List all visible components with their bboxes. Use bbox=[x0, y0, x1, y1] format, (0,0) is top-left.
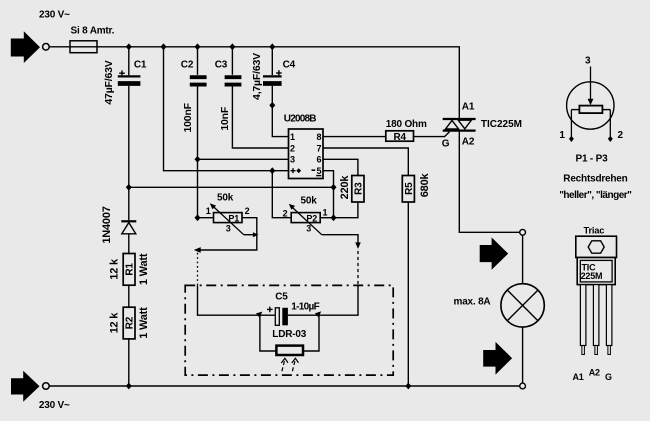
svg-text:3: 3 bbox=[306, 224, 311, 234]
capacitor C5 bbox=[267, 292, 320, 326]
wire IC pin5 down bbox=[323, 171, 334, 218]
wire R2 to rail bbox=[128, 339, 130, 386]
svg-text:180 Ohm: 180 Ohm bbox=[386, 119, 427, 130]
svg-text:A1: A1 bbox=[462, 102, 475, 113]
svg-text:12 k: 12 k bbox=[108, 312, 120, 334]
connector arrow P2 to sensor bbox=[355, 242, 361, 249]
node dot C1-187 bbox=[126, 184, 132, 191]
resistor R2 bbox=[108, 307, 150, 339]
svg-text:P1: P1 bbox=[228, 213, 239, 223]
svg-text:G: G bbox=[605, 372, 612, 382]
wire C3 to IC pin2 bbox=[232, 87, 288, 149]
node dot C2-pin3 bbox=[195, 156, 201, 163]
node dot P1 pin1 bbox=[195, 214, 201, 221]
svg-text:TIC225M: TIC225M bbox=[481, 119, 522, 130]
capacitor C4 bbox=[251, 47, 296, 100]
svg-text:1 Watt: 1 Watt bbox=[138, 253, 150, 285]
wire P1 wiper horizontal bbox=[244, 234, 257, 236]
wire to C5 left plate bbox=[260, 314, 275, 316]
resistor R3 bbox=[339, 175, 365, 202]
svg-text:1: 1 bbox=[323, 208, 328, 218]
node dot pin4 branch bbox=[269, 167, 275, 174]
svg-text:1 Watt: 1 Watt bbox=[138, 307, 150, 339]
svg-text:R2: R2 bbox=[125, 316, 136, 329]
dial symbol P1-P3 bbox=[559, 56, 623, 143]
capacitor C2 bbox=[181, 47, 207, 133]
svg-text:12 k: 12 k bbox=[108, 258, 120, 280]
wire C4 to IC pin1 bbox=[272, 86, 288, 137]
wire bottom rail bbox=[49, 385, 519, 387]
wire top rail bbox=[49, 47, 459, 119]
load arrow lower bbox=[483, 342, 512, 375]
node dot pin5-187 bbox=[331, 184, 337, 191]
triac TIC225M symbol bbox=[442, 102, 522, 150]
wire IC pin8 to R4 bbox=[323, 136, 386, 138]
wire R5 bottom to rail bbox=[407, 202, 409, 386]
potentiometer P2 bbox=[283, 195, 328, 234]
svg-text:LDR-03: LDR-03 bbox=[272, 329, 306, 340]
svg-text:1: 1 bbox=[559, 130, 565, 141]
node dot rail C2 bbox=[195, 43, 201, 50]
terminal circle top-left bbox=[43, 44, 50, 51]
capacitor C1 bbox=[103, 47, 147, 105]
node dot rail C4 bbox=[269, 43, 275, 50]
svg-text:7: 7 bbox=[316, 143, 321, 153]
node dot rail C3 bbox=[229, 43, 235, 50]
node dot C4 wire bbox=[269, 102, 275, 109]
resistor R1 bbox=[108, 253, 150, 285]
wire lamp bottom bbox=[522, 327, 524, 383]
svg-text:6: 6 bbox=[316, 155, 321, 165]
terminal circle lamp top bbox=[520, 229, 526, 235]
wire P2 pin1 bbox=[320, 217, 333, 219]
node dot rail Vcc bbox=[161, 43, 167, 50]
mains input arrow top bbox=[11, 31, 40, 63]
fuse Si8 bbox=[70, 41, 97, 53]
svg-text:50k: 50k bbox=[301, 195, 318, 206]
svg-text:100nF: 100nF bbox=[182, 102, 194, 132]
svg-text:C2: C2 bbox=[181, 59, 194, 70]
connector arrow into C5 right bbox=[315, 311, 321, 317]
wire triac A2 down to lamp bbox=[459, 130, 520, 232]
svg-text:A1: A1 bbox=[573, 372, 584, 382]
svg-text:R4: R4 bbox=[394, 132, 407, 143]
resistor R4 bbox=[386, 119, 427, 143]
wire IC pin7 to R5 top bbox=[323, 148, 408, 176]
wire P1 pin1 bbox=[198, 217, 214, 219]
wire IC pin6 to R3 top bbox=[323, 159, 358, 175]
diode 1N4007 bbox=[101, 206, 137, 243]
lamp max 8A bbox=[454, 284, 545, 327]
resistor R5 bbox=[402, 172, 431, 202]
terminal circle bottom-left bbox=[43, 383, 50, 390]
node dot rail C1 bbox=[126, 43, 132, 50]
svg-text:3: 3 bbox=[585, 56, 591, 67]
wire Vcc line to IC pin4 bbox=[164, 47, 289, 171]
svg-text:5: 5 bbox=[316, 166, 321, 176]
wire lamp top bbox=[522, 235, 524, 284]
svg-text:680k: 680k bbox=[419, 172, 431, 197]
op-amp U1 U2008B IC box bbox=[284, 114, 323, 179]
light arrow 2 bbox=[292, 358, 299, 371]
mains input arrow bottom bbox=[11, 371, 40, 402]
wire sensor left entry bbox=[198, 285, 260, 315]
svg-text:R1: R1 bbox=[125, 263, 136, 276]
svg-text:1-10µF: 1-10µF bbox=[291, 301, 319, 312]
node dot rail R5 bbox=[405, 383, 411, 390]
capacitor C3 bbox=[215, 47, 242, 131]
wire P1 pin2 wiper loop bbox=[200, 218, 256, 250]
wire R1 to R2 bbox=[128, 285, 130, 307]
svg-text:230 V~: 230 V~ bbox=[39, 10, 70, 21]
wire diode to R1 bbox=[128, 234, 130, 254]
wire P2 wiper loop bbox=[322, 235, 358, 246]
junction arrow P1 wiper bbox=[253, 232, 259, 237]
LDR-03 body bbox=[272, 329, 306, 355]
svg-text:A2: A2 bbox=[589, 367, 600, 377]
wire R4 to triac gate bbox=[414, 132, 450, 137]
svg-text:max. 8A: max. 8A bbox=[454, 297, 491, 308]
svg-text:8: 8 bbox=[316, 132, 321, 142]
svg-text:C5: C5 bbox=[275, 292, 288, 303]
svg-text:G: G bbox=[442, 138, 450, 149]
svg-text:A2: A2 bbox=[462, 137, 475, 148]
svg-text:U2008B: U2008B bbox=[284, 114, 316, 125]
svg-text:Rechtsdrehen: Rechtsdrehen bbox=[563, 174, 627, 185]
wire C5 right to P2 entry bbox=[288, 285, 358, 315]
svg-text:R5: R5 bbox=[404, 182, 415, 195]
svg-text:225M: 225M bbox=[581, 271, 603, 281]
node dot rail R2 bbox=[126, 383, 132, 390]
svg-text:2: 2 bbox=[245, 206, 250, 216]
terminal circle lamp bottom bbox=[520, 383, 526, 389]
svg-text:1: 1 bbox=[206, 206, 211, 216]
wire dashed P2 to box bbox=[357, 251, 359, 286]
light arrow 1 bbox=[281, 358, 288, 371]
svg-text:10nF: 10nF bbox=[219, 106, 231, 130]
svg-text:Triac: Triac bbox=[584, 226, 605, 236]
load arrow upper bbox=[480, 237, 509, 269]
svg-text:"heller", "länger": "heller", "länger" bbox=[559, 190, 632, 201]
svg-text:P2: P2 bbox=[306, 213, 317, 223]
svg-text:R3: R3 bbox=[354, 182, 365, 195]
wire C2 down bbox=[197, 87, 199, 218]
svg-text:2: 2 bbox=[618, 130, 624, 141]
svg-text:1: 1 bbox=[290, 132, 295, 142]
svg-text:Si 8 Amtr.: Si 8 Amtr. bbox=[71, 26, 115, 37]
wire pin4 branch to P2 pin2 bbox=[272, 171, 291, 218]
svg-text:2: 2 bbox=[290, 143, 295, 153]
sensor enclosure dash-dot box bbox=[185, 285, 393, 375]
wire C1 down to diode bbox=[128, 86, 130, 221]
connector arrow into C5 left bbox=[256, 312, 262, 318]
TO-220 package Triac bbox=[573, 226, 617, 382]
svg-text:230 V~: 230 V~ bbox=[39, 400, 70, 411]
svg-text:220k: 220k bbox=[339, 175, 351, 200]
wire LDR right leg bbox=[303, 315, 319, 351]
svg-text:3: 3 bbox=[290, 155, 295, 165]
wire C1 to pin5 net bbox=[129, 186, 334, 188]
wire LDR left leg bbox=[260, 315, 277, 351]
svg-text:C4: C4 bbox=[283, 59, 296, 70]
node dot pin5-P2 bbox=[331, 214, 337, 221]
wire dotted P1 to box bbox=[197, 253, 199, 286]
wire R3 bottom bbox=[334, 202, 358, 218]
svg-text:C1: C1 bbox=[134, 59, 147, 70]
svg-text:1N4007: 1N4007 bbox=[101, 206, 113, 243]
svg-text:50k: 50k bbox=[217, 192, 234, 203]
wire IC pin3 line bbox=[198, 158, 289, 160]
svg-text:P1 - P3: P1 - P3 bbox=[576, 154, 609, 165]
svg-text:2: 2 bbox=[283, 208, 288, 218]
svg-text:4,7µF/63V: 4,7µF/63V bbox=[251, 53, 263, 100]
svg-text:47µF/63V: 47µF/63V bbox=[103, 60, 115, 104]
potentiometer P1 bbox=[206, 192, 250, 234]
svg-text:3: 3 bbox=[226, 224, 231, 234]
connector arrow P1 to sensor bbox=[194, 247, 201, 253]
svg-text:C3: C3 bbox=[215, 59, 228, 70]
